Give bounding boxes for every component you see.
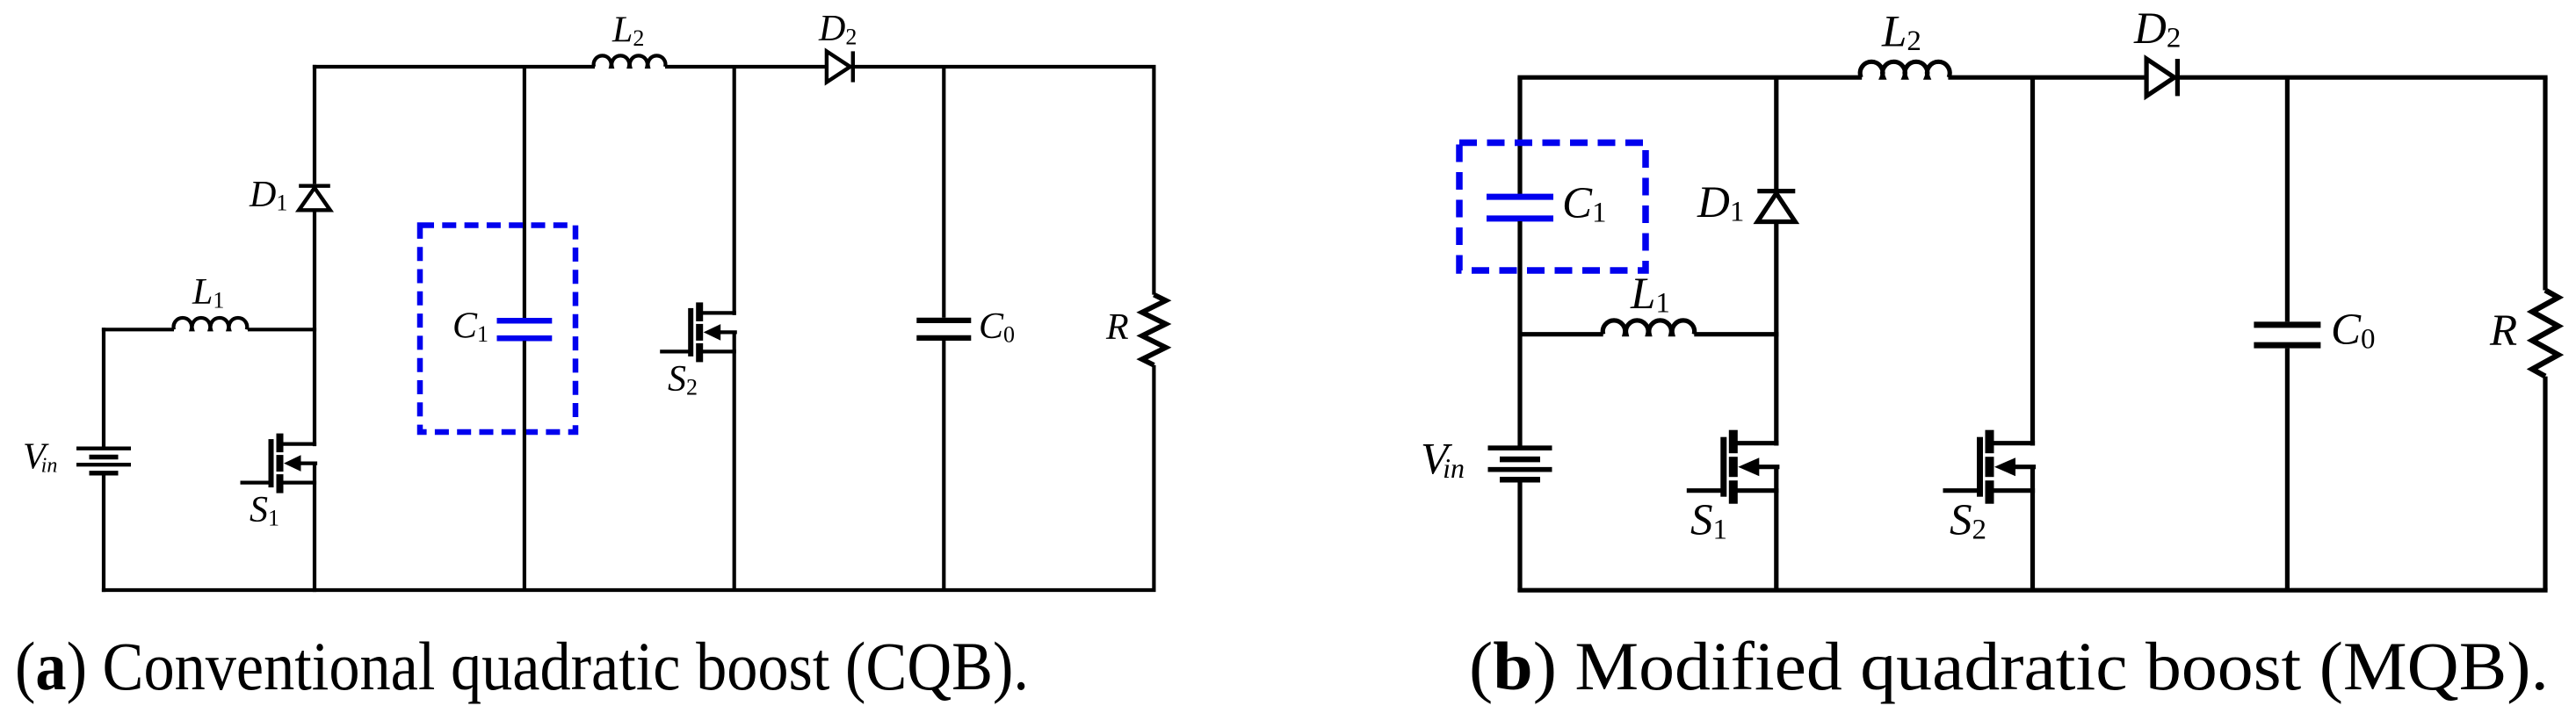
wire C0 branch upper (a) xyxy=(942,67,945,318)
resistor R (a) xyxy=(1142,295,1166,365)
capacitor C0 (a) xyxy=(916,318,971,323)
wire S1 source to bottom (b) xyxy=(1774,467,1778,591)
wire C0 branch upper (b) xyxy=(2285,77,2290,321)
wire Vin branch upper (a) xyxy=(102,328,105,449)
wire L1 right stub (b) xyxy=(1694,332,1778,336)
transistor S1 (b) xyxy=(1729,430,1738,454)
svg-text:S2: S2 xyxy=(1950,496,1986,546)
svg-text:L2: L2 xyxy=(1881,8,1921,58)
wire R branch lower (a) xyxy=(1152,365,1155,590)
svg-text:C1: C1 xyxy=(452,306,488,348)
svg-text:D1: D1 xyxy=(249,175,287,216)
wire C0 branch lower (b) xyxy=(2285,349,2290,591)
diode D2 (b) xyxy=(2146,59,2174,96)
svg-text:(b) Modified quadratic boost (: (b) Modified quadratic boost (MQB). xyxy=(1469,628,2549,704)
diode D1 (b) xyxy=(1757,189,1795,193)
wire S2 source to bottom (a) xyxy=(733,332,736,590)
diode D1 (a) xyxy=(299,184,330,187)
diode D2 (a) xyxy=(827,51,850,82)
wire left edge above C1 (b) xyxy=(1517,77,1522,194)
wire S2 branch upper (b) xyxy=(2030,77,2035,445)
svg-text:D1: D1 xyxy=(1697,178,1744,228)
wire D1 branch above diode (b) xyxy=(1774,77,1778,189)
svg-text:L1: L1 xyxy=(1630,270,1670,320)
wire R branch upper (a) xyxy=(1152,67,1155,295)
svg-text:(a) Conventional quadratic boo: (a) Conventional quadratic boost (CQB). xyxy=(15,628,1029,704)
transistor S1 (a) xyxy=(277,434,284,452)
svg-text:S2: S2 xyxy=(668,359,698,400)
inductor L2 (b) xyxy=(1860,61,1950,77)
capacitor C0 (b) xyxy=(2254,321,2320,328)
wire C1 branch upper (a) xyxy=(523,67,526,318)
svg-text:C0: C0 xyxy=(2331,306,2376,356)
dashed box around C1 (a) xyxy=(420,226,575,433)
wire top bus right of L2 (b) xyxy=(1948,76,2547,80)
wire bottom bus (b) xyxy=(1517,588,2547,593)
inductor L1 (b) xyxy=(1603,320,1694,335)
wire top bus left of L2 (b) xyxy=(1517,76,1862,80)
wire S2 branch upper (a) xyxy=(733,67,736,315)
svg-text:Vin: Vin xyxy=(1421,436,1465,485)
wire Vin branch lower (a) xyxy=(102,473,105,592)
transistor S2 (a) xyxy=(696,302,703,321)
wire top bus left of L2 (a) xyxy=(313,65,595,68)
inductor L1 (a) xyxy=(174,318,248,329)
svg-text:C1: C1 xyxy=(1562,179,1607,229)
battery Vin (a) xyxy=(76,447,131,450)
svg-text:C0: C0 xyxy=(979,306,1015,348)
wire D1 to S1 segment (b) xyxy=(1774,221,1778,445)
svg-text:S1: S1 xyxy=(1690,496,1727,546)
capacitor C1 (b) xyxy=(1487,194,1553,200)
wire L1 right stub (a) xyxy=(248,328,316,331)
dashed box around C1 (b) xyxy=(1459,143,1646,271)
wire R branch upper (b) xyxy=(2543,77,2547,290)
wire top bus right of L2 (a) xyxy=(665,65,1156,68)
svg-text:L2: L2 xyxy=(611,11,644,52)
wire left edge below battery (b) xyxy=(1517,479,1522,590)
wire L1 left stub (a) xyxy=(102,328,174,331)
wire C0 branch lower (a) xyxy=(942,341,945,590)
svg-text:S1: S1 xyxy=(250,490,279,531)
svg-text:D2: D2 xyxy=(818,9,857,50)
svg-text:R: R xyxy=(1105,307,1129,348)
wire C1 branch lower (a) xyxy=(523,341,526,590)
wire bottom bus (a) xyxy=(102,588,1156,592)
wire L1 left stub (b) xyxy=(1520,332,1603,336)
wire S1 source to bottom (a) xyxy=(313,464,316,593)
battery Vin (b) xyxy=(1488,445,1552,450)
wire S2 source to bottom (b) xyxy=(2030,467,2035,591)
wire D1-S1 segment (a) xyxy=(313,210,316,446)
inductor L2 (a) xyxy=(594,55,666,67)
wire D1 branch above diode (a) xyxy=(313,65,316,184)
resistor R (b) xyxy=(2532,291,2558,377)
capacitor C1 (a) xyxy=(497,318,553,324)
svg-text:D2: D2 xyxy=(2133,4,2181,54)
svg-text:Vin: Vin xyxy=(23,437,57,478)
svg-text:L1: L1 xyxy=(192,272,224,313)
wire R branch lower (b) xyxy=(2543,377,2547,591)
wire left edge C1 to battery (b) xyxy=(1517,221,1522,448)
transistor S2 (b) xyxy=(1986,430,1994,454)
svg-text:R: R xyxy=(2489,306,2517,356)
